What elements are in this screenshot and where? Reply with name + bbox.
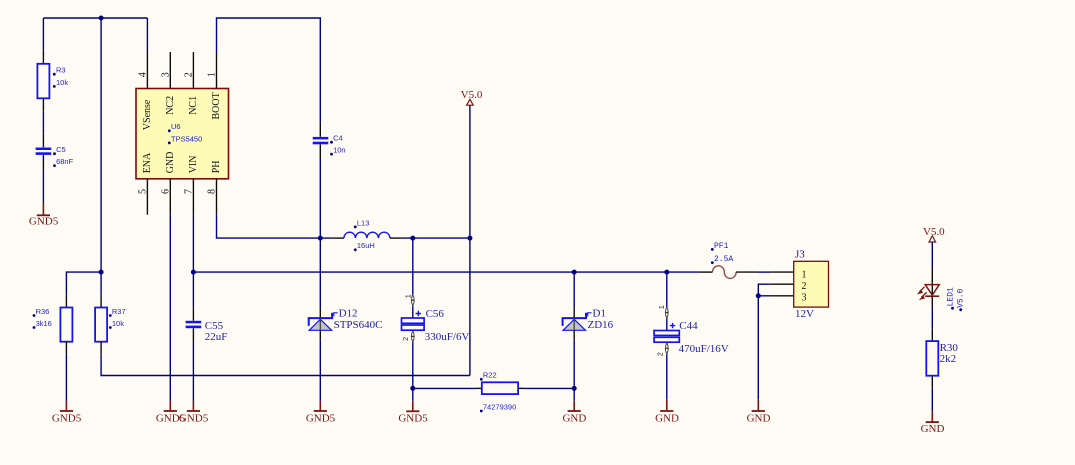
svg-text:V5.0: V5.0 xyxy=(957,288,966,307)
wire VSense to R36 xyxy=(66,272,101,295)
node PH/D12 junction xyxy=(318,236,323,241)
inductor L13 xyxy=(333,237,344,239)
svg-text:3: 3 xyxy=(161,72,172,77)
svg-text:10k: 10k xyxy=(56,78,68,87)
node VSense junction top xyxy=(99,16,104,21)
wire pin4 drop xyxy=(146,18,148,52)
svg-text:2k2: 2k2 xyxy=(940,353,957,365)
node D1 junction xyxy=(572,270,577,275)
resistor R36 xyxy=(65,295,67,308)
ground GND5 (pin6) xyxy=(169,401,171,412)
wire D12 to GND5 xyxy=(319,339,321,400)
node VSense junction at bus xyxy=(99,270,104,275)
svg-text:GND: GND xyxy=(921,423,945,435)
wire R3 to C5 xyxy=(42,111,44,133)
svg-text:GND5: GND5 xyxy=(306,413,336,425)
node D1/R22 junction xyxy=(572,386,577,391)
svg-text:68nF: 68nF xyxy=(56,157,74,166)
svg-text:D12: D12 xyxy=(339,308,358,320)
wire D1 to R22 node xyxy=(573,339,575,388)
svg-text:470uF/16V: 470uF/16V xyxy=(679,343,729,355)
capacitor C4 xyxy=(319,123,321,137)
svg-text:C56: C56 xyxy=(426,308,445,320)
ground GND5 (D12) xyxy=(319,401,321,412)
resistor R37 xyxy=(100,295,102,308)
wire PH to L13 xyxy=(217,215,333,238)
wire fuse to J3 pin1 xyxy=(757,271,770,273)
capacitor C56 (polarized) xyxy=(412,238,414,294)
svg-text:GND: GND xyxy=(655,412,679,424)
wire C44 to GND xyxy=(666,366,668,400)
ground GND (R30) xyxy=(931,411,933,422)
pin 8 PH xyxy=(216,179,218,215)
svg-text:U6: U6 xyxy=(171,122,181,131)
wire R36 to GND5 xyxy=(65,355,67,401)
node VIN/C55 junction xyxy=(191,270,196,275)
wire LED to R30 xyxy=(931,307,933,328)
ground GND (D1) xyxy=(573,388,575,400)
connector J3 xyxy=(770,271,794,273)
pin 6 GND xyxy=(169,179,171,215)
svg-text:R37: R37 xyxy=(112,307,126,316)
svg-text:J3: J3 xyxy=(795,249,805,261)
svg-text:R22: R22 xyxy=(483,371,497,380)
wire 12V bus xyxy=(193,271,700,273)
svg-text:L13: L13 xyxy=(357,218,370,227)
svg-text:V5.0: V5.0 xyxy=(923,226,945,238)
diode D1 ZD16 xyxy=(573,272,575,308)
svg-text:ZD16: ZD16 xyxy=(588,319,614,331)
pin 3 NC2 xyxy=(169,52,171,89)
wire R30 to GND xyxy=(931,389,933,411)
svg-text:R3: R3 xyxy=(56,66,66,75)
node C56 junction xyxy=(410,236,415,241)
svg-text:PH: PH xyxy=(211,161,222,174)
svg-text:1: 1 xyxy=(405,294,412,298)
wire C5 to GND5 xyxy=(42,170,44,203)
capacitor C55 xyxy=(192,272,194,308)
svg-text:22uF: 22uF xyxy=(205,331,228,343)
wire V5.0 to LED xyxy=(931,242,933,268)
pin 7 VIN xyxy=(192,179,194,215)
svg-text:C44: C44 xyxy=(679,320,698,332)
svg-text:3k16: 3k16 xyxy=(36,319,52,328)
ground GND (C44) xyxy=(666,400,668,411)
svg-text:GND5: GND5 xyxy=(52,413,82,425)
wire R37 top xyxy=(100,272,102,295)
svg-text:1: 1 xyxy=(659,305,666,309)
wire V5.0 vertical xyxy=(469,105,471,375)
svg-text:8: 8 xyxy=(207,189,218,194)
node C44 junction xyxy=(664,270,669,275)
ground GND5 (R3/C5) xyxy=(42,203,44,216)
wire J3 pins 2,3 to GND xyxy=(758,284,770,296)
svg-text:4: 4 xyxy=(138,72,149,77)
svg-text:2: 2 xyxy=(403,337,410,341)
pin 2 NC1 xyxy=(192,52,194,89)
LED LED1 xyxy=(931,268,933,296)
svg-text:VSense: VSense xyxy=(142,99,153,130)
svg-text:GND5: GND5 xyxy=(398,413,428,425)
svg-text:BOOT: BOOT xyxy=(211,92,222,119)
svg-text:2: 2 xyxy=(657,352,664,356)
svg-text:10n: 10n xyxy=(333,146,346,155)
svg-text:R36: R36 xyxy=(36,307,50,316)
svg-text:2: 2 xyxy=(184,72,195,77)
wire BOOT to C4 top xyxy=(217,18,321,123)
wire top-left VSense net xyxy=(43,17,147,19)
pin 4 VSense xyxy=(146,52,148,89)
svg-text:STPS640C: STPS640C xyxy=(334,319,383,331)
svg-text:D1: D1 xyxy=(593,308,606,320)
svg-text:LED1: LED1 xyxy=(947,287,956,306)
svg-text:NC2: NC2 xyxy=(165,96,176,115)
svg-text:GND: GND xyxy=(747,412,771,424)
wire C55 to GND5 xyxy=(192,342,194,401)
svg-text:3: 3 xyxy=(802,292,807,303)
ground GND5 (R36) xyxy=(65,401,67,412)
ground GND5 (C56) xyxy=(412,388,414,400)
svg-text:16uH: 16uH xyxy=(357,241,375,250)
pin 1 BOOT xyxy=(216,52,218,89)
svg-text:GND5: GND5 xyxy=(179,413,209,425)
svg-text:PF1: PF1 xyxy=(714,242,729,251)
svg-text:GND5: GND5 xyxy=(29,216,59,228)
wire R3 top xyxy=(42,18,44,51)
svg-text:12V: 12V xyxy=(795,308,814,320)
fuse PF1 xyxy=(700,271,712,273)
svg-text:10k: 10k xyxy=(112,319,124,328)
svg-text:2.5A: 2.5A xyxy=(714,255,733,264)
resistor R30 xyxy=(931,328,933,341)
wire pin6 GND down xyxy=(169,215,171,401)
node J3 gnd junction xyxy=(756,293,761,298)
pin 5 ENA xyxy=(146,179,148,215)
resistor R3 xyxy=(42,51,44,64)
svg-text:ENA: ENA xyxy=(142,152,153,173)
svg-text:7: 7 xyxy=(184,189,195,194)
svg-text:C4: C4 xyxy=(333,134,343,143)
svg-text:6: 6 xyxy=(161,189,172,194)
diode D12 STPS640C xyxy=(319,238,321,308)
svg-text:GND: GND xyxy=(562,413,586,425)
svg-text:2: 2 xyxy=(802,281,807,292)
svg-text:74279390: 74279390 xyxy=(483,402,516,411)
node C56/R22 junction xyxy=(410,386,415,391)
svg-text:TPS5450: TPS5450 xyxy=(171,134,202,143)
svg-text:NC1: NC1 xyxy=(188,96,199,115)
wire VIN pin to bus xyxy=(192,215,194,272)
wire J3 GND drop xyxy=(757,296,759,400)
svg-text:1: 1 xyxy=(802,269,807,280)
svg-text:330uF/6V: 330uF/6V xyxy=(425,331,470,343)
wire vertical VSense x=101 xyxy=(100,18,102,272)
svg-text:C5: C5 xyxy=(56,145,66,154)
svg-text:GND: GND xyxy=(165,152,176,174)
ground GND (J3) xyxy=(757,400,759,411)
wire L13 to V5 column xyxy=(402,237,470,239)
svg-text:V5.0: V5.0 xyxy=(461,89,483,101)
svg-text:VIN: VIN xyxy=(188,156,199,174)
wire C4 bottom to PH node xyxy=(319,158,321,239)
resistor R22 xyxy=(413,387,476,389)
svg-text:1: 1 xyxy=(207,72,218,77)
wire feedback to R37 xyxy=(101,355,470,376)
op-amp U6 TPS5450 body xyxy=(136,89,229,179)
svg-text:5: 5 xyxy=(138,189,149,194)
node V5 junction xyxy=(467,236,472,241)
capacitor C44 (polarized) xyxy=(666,272,668,306)
ground GND5 (C55) xyxy=(192,401,194,412)
wire C56 to R22 node xyxy=(412,355,414,388)
capacitor C5 xyxy=(42,133,44,147)
